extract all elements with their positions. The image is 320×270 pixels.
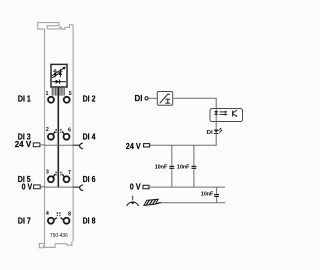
capacitor C1 branch wires [171, 145, 173, 187]
label 10nF C3 [201, 191, 214, 197]
svg-text:DI: DI [135, 93, 143, 103]
label 24 V schematic [126, 141, 141, 151]
svg-text:DI 1: DI 1 [18, 93, 31, 103]
24V schematic jumper contact [144, 144, 150, 147]
label 24 V module [15, 139, 32, 149]
label 0 V schematic [130, 182, 141, 192]
svg-text:DI: DI [207, 130, 214, 136]
wire optocoupler to status LED [215, 122, 217, 130]
wire filter to optocoupler [173, 98, 217, 108]
DIN rail symbol hatched [144, 199, 161, 205]
LED D1 cathode bar [53, 70, 57, 72]
svg-text:DI 2: DI 2 [83, 93, 96, 103]
label DI 3 [18, 132, 31, 142]
label DI 7 [18, 215, 31, 225]
label DI 6 [83, 174, 96, 184]
svg-text:0 V: 0 V [22, 181, 33, 191]
module bottom foot profile [39, 242, 72, 248]
status LED D4 bar [214, 133, 218, 135]
svg-text:10nF: 10nF [177, 165, 190, 171]
filter I symbol [165, 99, 170, 103]
functional earth symbol [127, 196, 139, 206]
status LED D4 triangle [214, 130, 218, 133]
svg-text:10nF: 10nF [155, 165, 168, 171]
capacitor C2 plates [192, 166, 197, 168]
label 10nF C1 [155, 165, 168, 171]
0V schematic jumper contact [143, 185, 149, 188]
svg-text:1: 1 [46, 91, 49, 97]
svg-text:DI 8: DI 8 [83, 215, 96, 225]
diode D3 cathode bar [59, 80, 61, 84]
svg-text:3: 3 [46, 170, 49, 176]
label 0 V module [22, 181, 33, 191]
module outline right edge [72, 25, 74, 242]
optocoupler LED bar [214, 113, 218, 115]
pin number 6 [68, 128, 71, 134]
pin number 4 [46, 211, 49, 217]
terminal 4 [48, 218, 57, 224]
pin number 1 [46, 91, 49, 97]
diode D3 line [52, 81, 66, 83]
clamp slot marks row2 [56, 129, 61, 133]
wire 0V rail [149, 186, 225, 188]
svg-text:DI 7: DI 7 [18, 215, 31, 225]
svg-text:0 V: 0 V [130, 182, 141, 192]
ribbon hatch below LED box [52, 87, 64, 95]
terminal 3 [48, 174, 55, 182]
LED emission arrow short [52, 72, 62, 78]
label DI 2 [83, 93, 96, 103]
module outline left edge [44, 29, 46, 242]
pin number 7 [68, 170, 71, 176]
24V left jumper contact [33, 143, 44, 147]
wire 0V through module [45, 186, 74, 188]
label 750-436 [50, 233, 68, 239]
terminal 2 [48, 131, 55, 139]
clamp slot marks row3 [56, 172, 61, 176]
wire DI to filter [148, 97, 157, 99]
module top edge with marker notch [47, 25, 73, 30]
pin number 3 [46, 170, 49, 176]
filter box U2 [157, 92, 172, 106]
terminal 5 [64, 97, 70, 103]
svg-text:8: 8 [68, 211, 71, 217]
svg-text:4: 4 [46, 211, 49, 217]
label 10nF C2 [177, 165, 190, 171]
pin number 2 [46, 127, 49, 133]
optocoupler light arrow bottom [220, 113, 228, 115]
wire status LED to 24V rail [150, 134, 217, 146]
svg-text:7: 7 [68, 170, 71, 176]
svg-text:6: 6 [68, 128, 71, 134]
svg-text:2: 2 [46, 127, 49, 133]
wire through optocoupler [215, 109, 217, 122]
capacitor C3 plates [214, 195, 219, 197]
LED D2 cathode bar [58, 70, 62, 72]
terminal 8 [61, 218, 70, 224]
pin number 5 [69, 91, 72, 97]
label DI 8 [83, 215, 96, 225]
node DI input terminal [145, 97, 148, 100]
svg-text:24 V: 24 V [126, 141, 141, 151]
svg-text:DI 6: DI 6 [83, 174, 96, 184]
module top latch profile [38, 23, 59, 29]
capacitor C2 branch wires [193, 145, 195, 187]
status LED emission arrows [218, 128, 222, 133]
filter ramp symbol [160, 94, 170, 103]
LED emission arrow long [52, 67, 66, 76]
terminal 7 [62, 174, 69, 182]
pin number 8 [68, 211, 71, 217]
diode D3 triangle [56, 80, 60, 84]
LED box U1 [51, 64, 67, 87]
svg-text:5: 5 [69, 91, 72, 97]
svg-text:DI 4: DI 4 [83, 132, 96, 142]
capacitor C1 plates [169, 166, 174, 168]
optocoupler LED triangle [214, 111, 218, 114]
capacitor C3 branch wires [216, 187, 218, 203]
svg-text:10nF: 10nF [201, 191, 214, 197]
clamp slot marks row4 [57, 212, 60, 216]
label DI 5 [18, 174, 31, 184]
optocoupler light arrow top [220, 111, 228, 113]
phototransistor Q1 [233, 110, 238, 117]
schematic: label DI input [135, 93, 143, 103]
svg-text:24 V: 24 V [15, 139, 32, 149]
optocoupler box U3 [210, 109, 243, 122]
24V right spring contact [73, 143, 83, 148]
0V left jumper contact [34, 185, 45, 189]
LED D1 triangle [53, 69, 56, 78]
svg-text:750-436: 750-436 [50, 233, 68, 239]
wire ground rail [158, 202, 225, 204]
label DI 1 [18, 93, 31, 103]
0V right spring contact [73, 185, 83, 191]
LED D2 triangle [59, 69, 62, 78]
terminal 1 [48, 97, 54, 103]
label DI status [207, 130, 214, 136]
label DI 4 [83, 132, 96, 142]
terminal 6 [62, 131, 69, 139]
wire 24V through module [45, 144, 74, 146]
wire internal bus vertical [57, 87, 59, 187]
